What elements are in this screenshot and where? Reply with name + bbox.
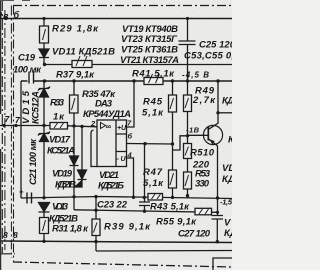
node dot C25 top xyxy=(186,17,189,20)
diode VD19 xyxy=(70,156,79,197)
svg-text:б: б xyxy=(128,132,133,141)
box corner bottom right xyxy=(213,258,232,270)
node dot R53 bottom xyxy=(186,194,189,197)
node dot R47 bottom xyxy=(171,196,174,199)
svg-text:R43 5,1к: R43 5,1к xyxy=(150,202,190,213)
wire VD19 below rail xyxy=(73,197,75,210)
wire rail R37 xyxy=(45,64,233,66)
border module boundary left inner xyxy=(10,6,12,259)
wire R35 to opamp xyxy=(68,126,98,127)
node dot VD21 top xyxy=(80,125,83,128)
wire VD19 branch xyxy=(73,126,75,156)
svg-text:+U: +U xyxy=(117,125,127,132)
node dot R33 bottom xyxy=(72,124,75,127)
svg-text:VT25 КТ361В: VT25 КТ361В xyxy=(121,45,178,56)
svg-text:КД: КД xyxy=(222,174,232,185)
node dot R33 top xyxy=(72,79,75,82)
svg-text:-1В: -1В xyxy=(186,126,200,135)
transistor base bar xyxy=(207,127,209,141)
svg-text:1в: 1в xyxy=(0,11,9,21)
node dot emitter rail xyxy=(216,196,219,199)
wire W2 lower xyxy=(74,210,218,213)
resistor R31 xyxy=(40,218,49,242)
svg-text:1к: 1к xyxy=(53,112,65,123)
node dot pin7 a xyxy=(2,124,5,127)
scan edge left xyxy=(0,0,2,270)
resistor R35 xyxy=(50,123,68,130)
wire base to transistor xyxy=(188,134,209,136)
wire base step xyxy=(173,136,188,150)
node dot R29 top xyxy=(42,17,45,20)
svg-text:VD13: VD13 xyxy=(52,202,69,213)
capacitor C23 xyxy=(139,202,150,211)
op-amp DA3 divider xyxy=(116,120,127,167)
wire emitter drop xyxy=(217,146,219,216)
border module boundary bottom xyxy=(13,262,232,267)
diode VD13 xyxy=(39,203,50,218)
svg-text:С25 120: С25 120 xyxy=(199,40,232,51)
node dot VD19 bottom rail xyxy=(72,195,75,198)
node dot pin4 rail xyxy=(132,196,135,199)
op-amp pin7 wire to rail xyxy=(127,82,135,128)
svg-text:VT21 КТ3157А: VT21 КТ3157А xyxy=(120,55,179,66)
node dot C23 bottom xyxy=(143,210,146,213)
node dot R39 top rail xyxy=(94,195,97,198)
node dot VD13 top xyxy=(42,196,45,199)
svg-text:330: 330 xyxy=(195,179,210,190)
wire C21 drop left xyxy=(20,81,22,198)
svg-text:-U: -U xyxy=(117,156,127,163)
node dot left stub xyxy=(4,17,7,20)
wire feedback drop xyxy=(144,144,146,202)
resistor R47 xyxy=(169,170,177,197)
resistor R49 xyxy=(184,81,192,144)
node dot VD15 bottom xyxy=(42,124,45,127)
svg-text:VD19: VD19 xyxy=(52,169,73,180)
svg-text:4: 4 xyxy=(127,151,133,160)
wire R47 chain xyxy=(172,144,174,170)
wire ground rail mid xyxy=(21,197,232,199)
node dot C27 top W2 xyxy=(216,211,219,214)
node dot feedback rail xyxy=(143,196,146,199)
resistor R39 xyxy=(92,197,100,251)
op-amp pin4 wire xyxy=(127,158,134,197)
svg-text:VT23 КТ315Г: VT23 КТ315Г xyxy=(121,34,178,45)
resistor R55 xyxy=(195,208,212,215)
op-amp pin6 output wire xyxy=(127,143,173,146)
svg-text:С27 120: С27 120 xyxy=(178,229,211,240)
capacitor C19 xyxy=(28,72,34,83)
border neighbour module inner line xyxy=(4,10,6,250)
border module boundary top xyxy=(13,5,232,7)
capacitor C25 xyxy=(179,19,196,82)
svg-text:100 мк: 100 мк xyxy=(13,65,42,76)
border neighbour module right edge xyxy=(0,0,15,254)
scan edge top ticks xyxy=(0,0,30,2)
resistor R510 xyxy=(184,144,192,173)
svg-text:2,7к: 2,7к xyxy=(192,95,216,106)
node dot VD11 bottom xyxy=(43,63,46,66)
svg-text:5,1к: 5,1к xyxy=(142,108,164,119)
svg-text:КС521А: КС521А xyxy=(47,146,75,157)
resistor R53 xyxy=(184,172,192,196)
svg-text:V: V xyxy=(224,218,231,229)
resistor R29 xyxy=(40,19,49,50)
svg-text:∞: ∞ xyxy=(106,122,112,131)
resistor R33 xyxy=(70,81,79,126)
svg-text:R31 1,8 к: R31 1,8 к xyxy=(52,224,89,235)
svg-text:+: + xyxy=(19,188,24,197)
diode VD11 xyxy=(39,49,49,65)
svg-text:R47: R47 xyxy=(143,167,163,178)
svg-text:DA3: DA3 xyxy=(95,99,113,110)
wire top rail pin6 xyxy=(0,18,232,20)
svg-text:R37 9,1к: R37 9,1к xyxy=(56,70,95,81)
svg-text:КС512А: КС512А xyxy=(31,91,42,124)
node dot output feedback xyxy=(143,142,146,145)
svg-text:VD17: VD17 xyxy=(49,135,71,146)
transistor emitter lead with arrow xyxy=(208,139,217,146)
op-amp second input stub xyxy=(91,130,97,167)
svg-text:КД521В: КД521В xyxy=(55,180,76,191)
wire W2b lowest xyxy=(96,250,232,253)
svg-text:С53,С55 0,: С53,С55 0, xyxy=(184,51,232,62)
svg-text:2: 2 xyxy=(90,119,96,128)
svg-text:VD: VD xyxy=(222,163,232,174)
svg-text:R41 5,1к: R41 5,1к xyxy=(132,69,175,80)
svg-text:R33: R33 xyxy=(50,98,65,109)
svg-text:R55 9,1к: R55 9,1к xyxy=(156,217,197,228)
svg-text:К: К xyxy=(228,135,232,146)
svg-text:R510: R510 xyxy=(190,148,215,159)
node dot base junction xyxy=(186,134,189,137)
diode VD21 xyxy=(74,170,87,187)
svg-text:КД521Б: КД521Б xyxy=(98,181,124,192)
node dot collector tap xyxy=(216,111,219,114)
op-amp DA3 box xyxy=(97,120,127,167)
zener VD17 xyxy=(38,126,50,199)
node dot output R45 xyxy=(171,142,174,145)
zener VD15 xyxy=(38,81,50,126)
svg-text:С23 22: С23 22 xyxy=(97,200,128,211)
transistor VT circle xyxy=(203,125,222,144)
svg-text:КД: КД xyxy=(224,228,232,239)
svg-text:С19: С19 xyxy=(18,53,36,64)
svg-text:VD11 КД521В: VD11 КД521В xyxy=(52,47,115,58)
node dot C19 right xyxy=(43,79,46,82)
wire rail +4.5V xyxy=(21,80,232,82)
node dot pin7 rail xyxy=(132,79,135,82)
transistor collector lead xyxy=(208,82,218,130)
border module boundary left xyxy=(13,6,15,263)
resistor R43 xyxy=(148,194,163,201)
svg-text:8: 8 xyxy=(13,230,18,240)
svg-text:5,1к: 5,1к xyxy=(143,178,164,189)
wire bottom rail pin8 xyxy=(0,241,232,243)
wire pin7 input xyxy=(0,125,50,127)
svg-text:б: б xyxy=(14,10,20,20)
op-amp DA3 gain symbol xyxy=(101,123,106,129)
node dot C25 bottom rail xyxy=(186,79,189,82)
capacitor C21 xyxy=(27,193,32,204)
node dot collector rail xyxy=(216,79,219,82)
svg-text:С21 100 мк: С21 100 мк xyxy=(28,138,39,185)
resistor R45 xyxy=(169,81,177,144)
svg-text:-4,5 В: -4,5 В xyxy=(182,71,209,80)
node dot R39 W2 xyxy=(94,209,97,212)
node dot C27 bottom xyxy=(216,240,219,243)
wire VD21 branch xyxy=(81,127,83,171)
capacitor C27 xyxy=(212,216,224,242)
node dot R39 rail xyxy=(94,240,97,243)
resistor R41 xyxy=(144,78,163,85)
svg-text:8: 8 xyxy=(3,230,8,240)
svg-text:VD21: VD21 xyxy=(99,170,119,181)
node dot R31 bottom xyxy=(42,240,45,243)
svg-text:R45: R45 xyxy=(143,97,163,108)
node dot R45 top xyxy=(171,79,174,82)
wire collector tap to edge xyxy=(218,112,232,114)
resistor R37 xyxy=(72,61,92,68)
svg-text:КД: КД xyxy=(222,96,232,107)
node dot pin7 b xyxy=(14,124,17,127)
svg-text:-1,5: -1,5 xyxy=(220,198,232,207)
